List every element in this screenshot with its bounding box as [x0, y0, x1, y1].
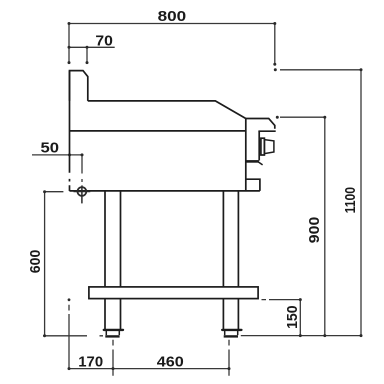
dim 600 line	[44, 192, 46, 336]
dim 900 line	[324, 117, 326, 335]
dim 600 top extension	[45, 191, 64, 193]
control recess top	[258, 130, 275, 132]
dim 70 extension	[86, 47, 88, 62]
svg-text:900: 900	[307, 217, 323, 244]
dim 900 top extension	[280, 116, 325, 118]
dim 50 line	[32, 154, 83, 156]
front bottom step	[246, 179, 260, 191]
svg-text:150: 150	[285, 305, 301, 329]
dim 170/460 line	[69, 368, 229, 370]
back leg	[105, 191, 121, 287]
dimension end dots	[43, 22, 362, 370]
undershelf	[89, 287, 258, 299]
front leg lower	[223, 299, 238, 329]
back leg lower	[105, 299, 121, 329]
svg-text:800: 800	[158, 9, 187, 25]
dim 170 left extension (dashed)	[68, 305, 70, 369]
splashback outline	[70, 71, 88, 101]
front foot	[222, 329, 241, 331]
dim 70 line	[69, 46, 115, 48]
dim 460 right extension	[228, 340, 230, 376]
front top edge with chamfer	[246, 119, 275, 129]
dim 50 extension to gas point (dashed)	[81, 155, 83, 187]
dim 170/460 middle extension	[112, 340, 114, 376]
dim 800 line	[69, 24, 275, 65]
knob flange	[261, 138, 265, 155]
floor line right	[241, 335, 362, 337]
svg-text:460: 460	[157, 355, 184, 371]
gas inlet symbol	[74, 186, 91, 203]
dim 1100 top extension	[280, 69, 361, 71]
control panel face	[258, 131, 260, 160]
back foot	[104, 329, 123, 331]
body mid line	[70, 130, 246, 132]
front leg	[223, 191, 238, 287]
svg-text:170: 170	[78, 355, 103, 371]
control recess bottom lip	[246, 160, 259, 163]
dim 1100 line	[360, 70, 362, 336]
body left edge	[69, 71, 71, 191]
dim 150 line	[299, 300, 301, 336]
svg-text:70: 70	[95, 33, 113, 49]
dim 150 top extension (dashed)	[262, 299, 301, 301]
knob skirt	[264, 140, 274, 154]
floor line left	[43, 335, 103, 337]
body front edge	[245, 119, 247, 191]
svg-text:1100: 1100	[343, 187, 359, 214]
recess lip tail	[258, 162, 262, 165]
svg-text:50: 50	[41, 140, 60, 156]
body bottom line	[70, 190, 260, 192]
svg-text:600: 600	[28, 250, 44, 274]
worktop surface	[88, 101, 246, 119]
